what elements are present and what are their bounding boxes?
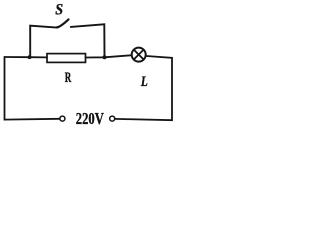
svg-text:S: S bbox=[55, 2, 63, 19]
svg-text:L: L bbox=[140, 72, 148, 89]
svg-text:220V: 220V bbox=[76, 109, 105, 128]
svg-text:R: R bbox=[65, 69, 72, 86]
